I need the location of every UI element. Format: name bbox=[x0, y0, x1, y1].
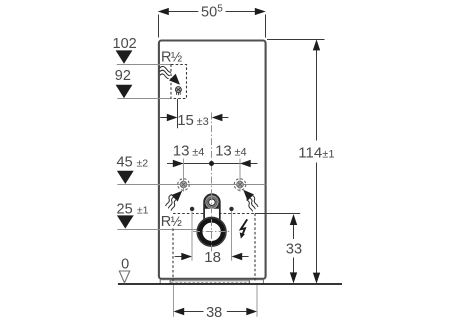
water connection arrow right (points NW) bbox=[243, 190, 254, 201]
fixation dot left bbox=[190, 207, 194, 211]
svg-text:±4: ±4 bbox=[192, 146, 204, 158]
svg-text:13: 13 bbox=[173, 142, 190, 159]
svg-text:±1: ±1 bbox=[322, 149, 334, 161]
svg-text:±2: ±2 bbox=[137, 158, 149, 170]
svg-text:13: 13 bbox=[215, 142, 232, 159]
fixation dot right bbox=[229, 207, 233, 211]
anchor extension line left bbox=[183, 159, 185, 192]
svg-text:102: 102 bbox=[113, 36, 137, 52]
dimension 114 +/-1 right bbox=[267, 39, 325, 41]
dimension 15 +/-3 bbox=[160, 117, 228, 119]
svg-text:114: 114 bbox=[298, 145, 322, 162]
dimension 33 right bbox=[255, 213, 300, 215]
water squiggle left bbox=[166, 194, 178, 210]
anchor extension line right bbox=[239, 159, 241, 192]
center line (dash-dot vertical) bbox=[211, 113, 213, 252]
dimension 38 bottom bbox=[173, 285, 175, 317]
anchor point right bbox=[234, 179, 246, 191]
svg-text:R½: R½ bbox=[161, 214, 182, 230]
waste outlet big circle bbox=[197, 217, 226, 246]
waste outlet crosshair bbox=[193, 231, 231, 233]
svg-text:R½: R½ bbox=[161, 50, 182, 66]
svg-text:38: 38 bbox=[206, 305, 222, 320]
svg-text:45: 45 bbox=[117, 155, 133, 171]
dimension 50.5 top bbox=[159, 12, 266, 38]
dashed box water supply bbox=[171, 65, 187, 99]
fixation extension line right bbox=[231, 211, 233, 260]
water supply arrow top (points SE) bbox=[169, 74, 180, 85]
base feet and plinth plate bbox=[160, 280, 263, 284]
svg-text:18: 18 bbox=[204, 249, 221, 266]
svg-text:25: 25 bbox=[117, 202, 133, 218]
dimension 18 bbox=[175, 256, 249, 258]
svg-text:±3: ±3 bbox=[197, 116, 209, 128]
svg-text:50: 50 bbox=[201, 4, 217, 20]
anchor point left bbox=[178, 179, 190, 191]
svg-text:0: 0 bbox=[121, 257, 129, 273]
flush pipe stadium bbox=[204, 194, 220, 222]
water squiggle right bbox=[246, 195, 258, 211]
svg-text:5: 5 bbox=[217, 3, 223, 14]
svg-text:±4: ±4 bbox=[235, 146, 247, 158]
fixation extension line left bbox=[191, 211, 193, 260]
floor line bbox=[118, 283, 342, 285]
water supply squiggle top bbox=[159, 66, 171, 78]
dimension 13 line with outside arrows and center dot bbox=[167, 163, 257, 165]
panel outline bbox=[159, 41, 266, 279]
svg-text:15: 15 bbox=[177, 112, 194, 129]
water connection arrow left (points NE) bbox=[171, 191, 182, 202]
lightning bolt bbox=[241, 219, 247, 233]
extension line below dashed box bbox=[177, 99, 179, 129]
svg-text:92: 92 bbox=[115, 68, 131, 84]
outlet symbol in dashed box bbox=[175, 87, 181, 96]
svg-text:±1: ±1 bbox=[137, 205, 149, 217]
svg-text:33: 33 bbox=[286, 242, 302, 258]
flush pipe ring bbox=[206, 196, 219, 209]
dashed outline box bottom bbox=[173, 214, 255, 282]
